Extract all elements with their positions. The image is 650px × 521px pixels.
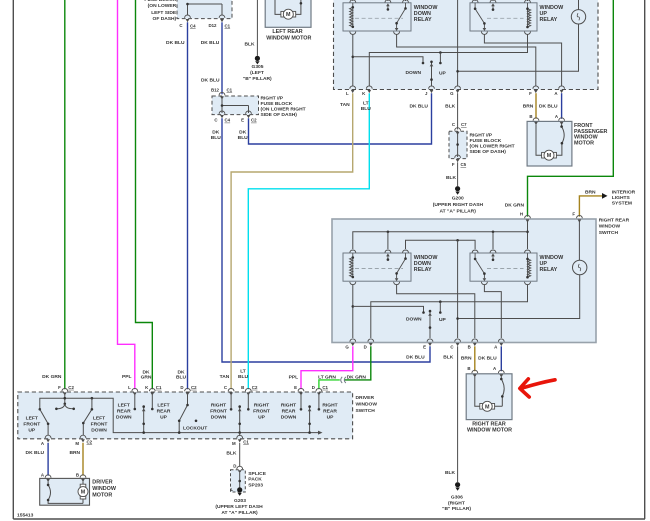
wire BRN rear switch F to interior lights (579, 196, 602, 217)
wire BRN driver M to motor B (82, 443, 84, 476)
pin F C2 (62, 388, 68, 395)
svg-text:BLU: BLU (176, 374, 187, 380)
right rear motor caption (467, 421, 512, 433)
svg-text:A: A (494, 344, 498, 349)
svg-text:BLK: BLK (443, 354, 454, 360)
svg-text:UP: UP (439, 70, 447, 76)
driver switch bottom pin M C1 (237, 435, 243, 442)
right rear window switch box (332, 219, 596, 343)
svg-text:REAR: REAR (323, 408, 337, 414)
wire DOWN contact branch (front) (353, 57, 423, 62)
left front up switch (39, 408, 42, 411)
svg-text:(UPPER RIGHT DASH: (UPPER RIGHT DASH (433, 202, 484, 208)
svg-text:D: D (312, 385, 315, 390)
window up relay (rear) caption (540, 255, 565, 273)
svg-text:OF DASH): OF DASH) (153, 16, 177, 22)
pin D C2 (185, 388, 191, 395)
svg-text:LEFT: LEFT (93, 415, 105, 421)
svg-text:C5: C5 (461, 162, 467, 167)
pin G rear (350, 339, 356, 346)
relay2r switch arm (475, 253, 484, 278)
relay2f top cups (472, 0, 478, 3)
svg-text:SIDE OF DASH): SIDE OF DASH) (470, 149, 507, 155)
svg-text:BLK: BLK (244, 42, 255, 48)
svg-text:D: D (233, 463, 236, 468)
relay2f coil (528, 9, 531, 27)
svg-text:BLU: BLU (211, 135, 222, 141)
svg-text:C1: C1 (243, 439, 249, 444)
left rear down contact pin L (134, 395, 136, 408)
lockout switch (179, 395, 187, 433)
svg-text:BLK: BLK (445, 470, 456, 476)
svg-text:C1: C1 (225, 23, 231, 28)
fuse3 pin F C5 (455, 155, 461, 162)
svg-text:"B" PILLAR): "B" PILLAR) (243, 76, 272, 82)
relay2f dashed centerline (487, 17, 524, 19)
relay2f bottom cups (481, 32, 487, 35)
front passenger motor internal wires (536, 125, 562, 156)
svg-text:DK BLU: DK BLU (478, 356, 497, 362)
svg-text:SWITCH: SWITCH (356, 408, 376, 414)
wire DK GRN to driver switch pin K (136, 0, 153, 389)
wire relay1f arm to pin F (397, 35, 536, 87)
svg-text:DRIVER: DRIVER (356, 395, 375, 401)
driver switch bottom pin M C2 (80, 435, 86, 442)
pin F (533, 86, 539, 93)
svg-text:E: E (294, 385, 297, 390)
svg-text:BLU: BLU (238, 374, 249, 380)
svg-text:K: K (362, 91, 366, 96)
svg-text:REAR: REAR (157, 408, 171, 414)
svg-text:C1: C1 (322, 385, 328, 390)
svg-text:F: F (572, 211, 575, 216)
UP contact stub (front) (439, 53, 441, 63)
splice pin (237, 466, 243, 473)
svg-text:A: A (41, 441, 45, 446)
svg-text:BLK: BLK (445, 103, 456, 109)
svg-text:DRIVER: DRIVER (92, 480, 112, 486)
right rear window switch caption (599, 217, 630, 236)
left front down switch (91, 397, 94, 400)
relay1f switch arm (397, 3, 406, 28)
window down relay (rear) caption (414, 255, 439, 273)
wire UP bus pin D to relay2r coil (rear) (371, 285, 528, 338)
wire pin H down to relay2r coil (527, 221, 529, 249)
svg-text:A: A (554, 91, 558, 96)
svg-text:TAN: TAN (220, 374, 230, 380)
svg-text:C7: C7 (461, 122, 467, 127)
svg-text:BRN: BRN (585, 190, 596, 196)
pin B rear (472, 339, 478, 346)
right rear motor internal wires (475, 377, 503, 406)
splice caption (248, 471, 266, 489)
svg-text:PACK: PACK (248, 477, 262, 483)
rear switch pin F (577, 215, 583, 222)
pin E (298, 388, 304, 395)
wire relay1r coil to pin G (352, 285, 354, 338)
svg-text:C4: C4 (190, 23, 196, 28)
svg-text:C2: C2 (191, 385, 197, 390)
svg-text:RELAY: RELAY (540, 267, 558, 273)
svg-text:L: L (346, 91, 349, 96)
right rear down contact pin E (300, 395, 302, 408)
right rear common column (309, 407, 311, 433)
relay1r top cups (350, 250, 356, 253)
driver window motor box (40, 478, 90, 505)
driver motor caption (92, 480, 117, 499)
wire PPL rear G to driver switch E (301, 346, 353, 389)
svg-text:(RIGHT: (RIGHT (448, 500, 465, 506)
svg-text:A: A (493, 366, 497, 371)
relay1f top stubs to cut edge (353, 0, 406, 1)
svg-text:AT "A" PILLAR): AT "A" PILLAR) (440, 208, 477, 214)
window up relay (front) caption (540, 5, 565, 23)
wire DK BLU rear A to motor A (500, 346, 502, 371)
svg-text:155413: 155413 (17, 513, 34, 519)
wire BLK to G305 (256, 0, 258, 56)
motor pins (472, 370, 478, 377)
driver switch internal bus (40, 398, 319, 432)
motor M driver (78, 484, 88, 499)
right rear up contact pin D2 (318, 395, 320, 408)
wire BRN front switch F to motor B (535, 93, 537, 119)
driver switch caption (356, 395, 378, 414)
top bus relay feeds (353, 232, 528, 249)
svg-text:RIGHT: RIGHT (322, 402, 337, 408)
svg-text:MOTOR: MOTOR (574, 140, 594, 146)
svg-text:DK BLU: DK BLU (539, 103, 558, 109)
svg-text:A: A (555, 114, 559, 119)
svg-text:UP: UP (160, 414, 168, 420)
svg-text:INTERIOR: INTERIOR (612, 189, 636, 195)
pin J (429, 86, 435, 93)
svg-text:WINDOW: WINDOW (599, 224, 621, 230)
left rear motor junction dot (300, 2, 303, 5)
svg-text:(ON LOWER: (ON LOWER (148, 3, 177, 9)
ground G200 (455, 186, 460, 195)
svg-text:A: A (41, 473, 45, 478)
svg-text:SP203: SP203 (248, 482, 263, 488)
svg-text:B: B (241, 385, 244, 390)
internal arc contact (48, 485, 50, 500)
wire DK GRN from top right to rear switch pin H (528, 0, 614, 217)
front passenger motor caption (574, 123, 608, 146)
left rear window motor box (265, 0, 311, 27)
left rear motor caption (266, 29, 311, 42)
front passenger window motor box (527, 121, 572, 166)
fuse2 pin E C2 (246, 111, 252, 118)
wire DK BLU front switch A to motor A (561, 93, 563, 119)
svg-text:GRN: GRN (141, 374, 152, 380)
svg-text:DK BLU: DK BLU (406, 354, 425, 360)
fuse3 caption (470, 133, 515, 156)
svg-text:DK GRN: DK GRN (347, 374, 367, 380)
svg-text:RIGHT I/P: RIGHT I/P (261, 96, 284, 102)
fuse3 internal (457, 131, 459, 157)
svg-text:E: E (423, 344, 426, 349)
wire common fixed to pin C (ground leg) (457, 240, 459, 338)
svg-text:DOWN: DOWN (406, 70, 422, 76)
svg-text:BRN: BRN (69, 450, 80, 456)
relay1r coil (350, 258, 353, 277)
right I/P fuse block (3rd) box (449, 131, 467, 158)
svg-text:LT: LT (240, 369, 246, 375)
svg-text:BLU: BLU (238, 135, 249, 141)
pin A rear (498, 339, 504, 346)
svg-text:AT "A" PILLAR): AT "A" PILLAR) (221, 510, 258, 516)
svg-text:FRONT: FRONT (210, 408, 227, 414)
svg-text:FUSE BLOCK: FUSE BLOCK (261, 101, 293, 107)
relay2f top stubs (475, 0, 527, 1)
relay1f bottom cups (350, 32, 356, 35)
svg-text:DK: DK (212, 130, 220, 136)
wire relay2r arm to pin A (484, 285, 501, 338)
svg-text:D12: D12 (208, 23, 217, 28)
wire DK BLU fuse C1 down to right I/P fuse block B12 (221, 22, 223, 94)
svg-text:B: B (468, 344, 471, 349)
bus arrowhead (318, 431, 323, 435)
relay2r bottom cups (481, 282, 487, 285)
svg-text:BLK: BLK (226, 450, 237, 456)
fuse2 internal dot (221, 104, 224, 107)
svg-text:G203: G203 (234, 498, 246, 504)
fuse3 pin C C7 (455, 128, 461, 135)
relay2r fixed contact stub (492, 256, 494, 260)
svg-text:D: D (364, 344, 367, 349)
svg-text:LEFT: LEFT (118, 402, 130, 408)
svg-text:DK BLU: DK BLU (201, 40, 220, 46)
relay1r dashed centerline (355, 268, 403, 270)
wire LT BLU front switch K to driver switch B (248, 93, 369, 389)
svg-text:FUSE BLOCK: FUSE BLOCK (144, 0, 176, 3)
svg-text:DK: DK (239, 130, 247, 136)
internal arc contact (501, 379, 504, 396)
wire DK BLU driver A to motor A (47, 443, 49, 476)
svg-text:BRN: BRN (523, 103, 534, 109)
common split arms (56, 404, 73, 409)
window down relay (rear) box (343, 253, 411, 281)
wire BRN rear B to motor B (474, 346, 476, 371)
svg-text:RIGHT REAR: RIGHT REAR (472, 421, 506, 427)
fuse2 pin C C4 (219, 111, 225, 118)
svg-text:WINDOW: WINDOW (92, 486, 117, 492)
svg-text:LEFT SIDE: LEFT SIDE (151, 10, 177, 16)
svg-text:RIGHT: RIGHT (281, 402, 296, 408)
svg-text:SIDE OF DASH): SIDE OF DASH) (261, 112, 298, 118)
svg-text:RELAY: RELAY (540, 17, 558, 23)
svg-text:PPL: PPL (122, 374, 132, 380)
svg-text:C2: C2 (251, 118, 257, 123)
pin C (228, 388, 234, 395)
svg-text:PPL: PPL (289, 374, 299, 380)
motor pins (45, 475, 51, 482)
svg-text:B: B (529, 114, 532, 119)
fuse block internal junction (186, 3, 189, 6)
wire relay1r arm to pin B (397, 285, 475, 338)
wire DOWN contact branch (rear) (353, 306, 424, 311)
fuse pin C C4 (185, 15, 191, 22)
ground G306 (455, 482, 460, 491)
relay1f top cups (350, 0, 356, 3)
svg-text:F: F (452, 162, 455, 167)
relay2r coil (528, 259, 531, 277)
svg-text:C2: C2 (252, 385, 258, 390)
svg-text:LIGHTS: LIGHTS (612, 195, 631, 201)
svg-text:BRN: BRN (461, 356, 472, 362)
svg-text:K: K (145, 385, 149, 390)
svg-text:BLK: BLK (446, 175, 457, 181)
inline connector chevrons (341, 377, 346, 383)
right rear window motor box (466, 374, 512, 420)
pin B C2 (245, 388, 251, 395)
svg-text:DK BLU: DK BLU (26, 450, 45, 456)
relay2r dashed centerline (487, 268, 524, 270)
svg-text:BLU: BLU (361, 106, 372, 112)
svg-text:SYSTEM: SYSTEM (612, 200, 632, 206)
relay1r fixed contact stub (387, 256, 389, 260)
svg-text:SWITCH: SWITCH (599, 230, 619, 236)
svg-text:E: E (241, 117, 244, 122)
svg-text:G305: G305 (252, 64, 264, 70)
relay1f dashed centerline (355, 17, 403, 19)
switch common from pin E (rear) (429, 311, 431, 338)
svg-text:DOWN: DOWN (406, 316, 422, 322)
svg-text:B: B (467, 366, 470, 371)
svg-text:DK: DK (142, 369, 150, 375)
left rear up contact pin K (151, 395, 153, 408)
svg-text:C1: C1 (227, 87, 233, 92)
pin A (559, 86, 565, 93)
svg-text:WINDOW MOTOR: WINDOW MOTOR (266, 36, 311, 42)
wire TAN front switch L to driver switch C (231, 93, 353, 389)
svg-text:B12: B12 (211, 87, 220, 92)
splice pack box (231, 470, 246, 492)
bulb (rear switch illumination) (459, 221, 587, 319)
relay2r top cups (472, 250, 478, 253)
wire PPL to driver switch pin L (118, 0, 135, 389)
svg-text:UP: UP (258, 414, 266, 420)
left rear motor internal wires (275, 0, 301, 14)
svg-text:C2: C2 (87, 439, 93, 444)
svg-text:MOTOR: MOTOR (92, 493, 112, 499)
wire front switch pin G vertical (BLK feed) (457, 0, 459, 87)
wire DK GRN / LT GRN rear D to driver switch D (345, 346, 371, 380)
svg-text:(LEFT: (LEFT (250, 70, 264, 76)
svg-text:UP: UP (439, 317, 447, 323)
svg-text:"B" PILLAR): "B" PILLAR) (442, 506, 471, 512)
svg-text:M: M (75, 441, 79, 446)
motor M right rear (480, 401, 495, 411)
UP contact stub (rear) (439, 302, 441, 312)
svg-text:WINDOW MOTOR: WINDOW MOTOR (467, 428, 512, 434)
top bus stubs to relay cups (388, 232, 493, 249)
svg-text:LOCKOUT: LOCKOUT (183, 425, 207, 431)
motor pins B and A (533, 118, 539, 125)
svg-text:UP: UP (28, 427, 36, 433)
bulb (front switch illumination) (458, 0, 586, 71)
svg-text:LT: LT (363, 100, 369, 106)
window down relay (front) box (343, 3, 411, 31)
left I/P fuse block (dashed, top left) (177, 0, 232, 19)
svg-text:L: L (231, 487, 234, 492)
window down relay (front) caption (414, 5, 439, 23)
svg-text:J: J (425, 91, 428, 96)
relay2f fixed contact stub (492, 6, 494, 10)
pin D2 C1 (316, 388, 322, 395)
splice internal wire (239, 473, 241, 488)
relay1r switch arm (397, 253, 406, 278)
svg-text:L: L (128, 385, 131, 390)
svg-text:DOWN: DOWN (281, 414, 297, 420)
svg-text:FRONT: FRONT (91, 421, 108, 427)
svg-text:F: F (58, 385, 61, 390)
svg-text:G200: G200 (452, 196, 464, 202)
wire DK BLU fuse C4 to driver switch pin D (187, 22, 189, 389)
svg-text:REAR: REAR (117, 408, 131, 414)
svg-text:FRONT: FRONT (23, 421, 40, 427)
wire DK BLU fuse2 C4 down then right to rear switch pin E (222, 118, 430, 362)
red arrow annotation (520, 379, 555, 397)
svg-text:M: M (232, 441, 236, 446)
wire UP bus pin K to relay2f coil (front) (369, 35, 527, 87)
wire relay1f coil to pin L (352, 35, 354, 87)
svg-text:DK GRN: DK GRN (505, 203, 525, 209)
relay1f fixed contact stub (387, 6, 389, 10)
svg-text:G306: G306 (451, 495, 463, 501)
fuse2 internal wires (222, 96, 249, 113)
svg-text:D: D (180, 385, 183, 390)
svg-text:DK BLU: DK BLU (201, 78, 220, 84)
driver motor internal wires (48, 482, 83, 504)
wire BLK fuse3 to G200 (457, 162, 459, 186)
pin F feed to common (64, 395, 66, 404)
switch common from pin J (front) (431, 62, 433, 87)
svg-text:C2: C2 (68, 385, 74, 390)
fuse pin D12 C1 (219, 15, 225, 22)
relay1f coil (350, 7, 353, 26)
svg-text:C1: C1 (156, 385, 162, 390)
pin K C1 (149, 388, 155, 395)
driver switch bottom pin A (45, 435, 51, 442)
svg-text:TAN: TAN (340, 102, 350, 108)
fuse block label text (144, 0, 177, 22)
svg-text:F: F (529, 91, 532, 96)
svg-text:B: B (76, 473, 79, 478)
svg-text:C: C (179, 23, 183, 28)
svg-text:(ON LOWER RIGHT: (ON LOWER RIGHT (470, 144, 515, 150)
pin B12 C1 (219, 92, 225, 99)
wire BLK driver M to splice (239, 443, 241, 467)
wire BLK pin G to fuse3 (457, 93, 459, 129)
svg-text:G: G (450, 91, 454, 96)
svg-text:RELAY: RELAY (414, 17, 432, 23)
pin L (350, 86, 356, 93)
relay1r bottom cups (350, 282, 356, 285)
motor M left rear (281, 9, 296, 19)
svg-text:RIGHT I/P: RIGHT I/P (470, 133, 493, 139)
svg-text:DK BLU: DK BLU (166, 40, 185, 46)
svg-text:UP: UP (327, 414, 335, 420)
svg-text:(ON LOWER RIGHT: (ON LOWER RIGHT (261, 107, 306, 113)
pin D rear (368, 339, 374, 346)
svg-text:H: H (520, 211, 523, 216)
svg-text:RIGHT: RIGHT (211, 402, 226, 408)
svg-text:C: C (224, 385, 228, 390)
fuse2 caption (261, 96, 306, 119)
right front window switch box (dashed) (334, 0, 599, 90)
internal arc contact (562, 127, 565, 144)
ground G203 (237, 487, 242, 496)
